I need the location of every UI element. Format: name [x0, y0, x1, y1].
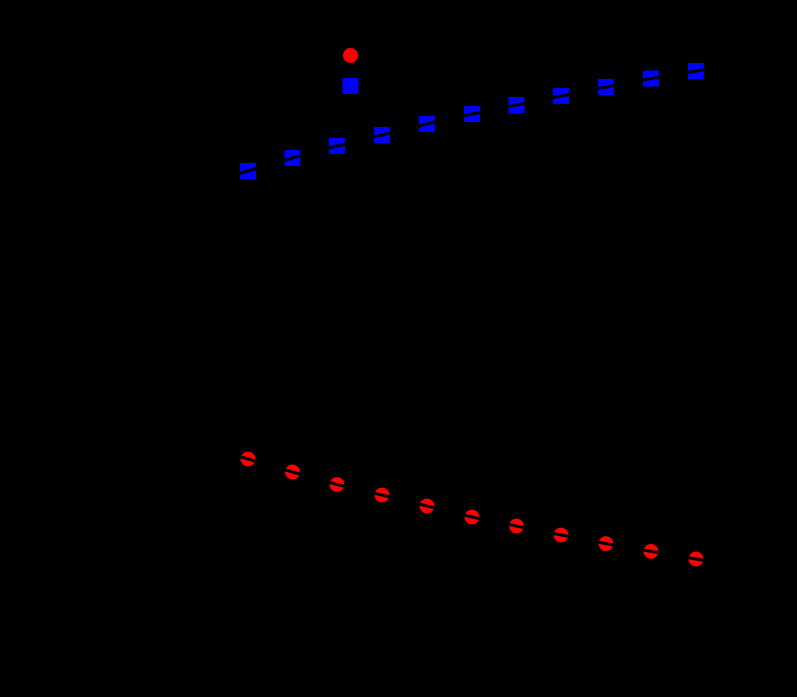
blue point 3 — [329, 138, 345, 154]
legend marker: blue square (series 2 sample) — [343, 78, 359, 94]
black fit line over red series (visible as slashes through markers) — [208, 447, 736, 566]
red point 1 — [241, 452, 256, 467]
blue point 5 — [419, 116, 435, 132]
blue point 2 — [285, 150, 301, 166]
red point 10 — [644, 544, 659, 559]
blue point 4 — [374, 127, 390, 143]
blue point 6 — [464, 106, 480, 122]
red point 3 — [330, 477, 345, 492]
red point 7 — [509, 519, 524, 534]
red point 2 — [285, 465, 300, 480]
red point 5 — [420, 499, 435, 514]
red point 9 — [599, 536, 614, 551]
blue point 10 — [643, 71, 659, 87]
red point 6 — [465, 510, 480, 525]
black fit line over blue series (visible as slashes through markers) — [208, 64, 736, 182]
legend marker: red circle (series 1 sample) — [343, 48, 358, 63]
blue series data markers (squares, ascending) — [240, 63, 704, 179]
blue point 8 — [553, 88, 569, 104]
blue point 11 — [688, 63, 704, 79]
blue point 9 — [598, 79, 614, 95]
blue point 7 — [509, 97, 525, 113]
red series data markers (circles, descending) — [241, 452, 704, 567]
red point 8 — [554, 528, 569, 543]
red point 4 — [375, 488, 390, 503]
blue point 1 — [240, 163, 256, 179]
red point 11 — [689, 552, 704, 567]
